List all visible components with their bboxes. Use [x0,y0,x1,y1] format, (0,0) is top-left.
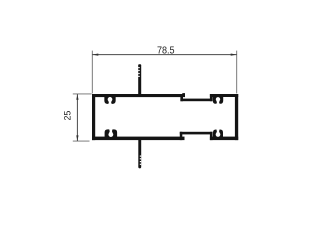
profile top recessed wall [180,99,212,102]
dimension 25 arrow top [76,94,78,100]
svg-text:78.5: 78.5 [157,45,175,56]
dimension 25 line [76,94,78,141]
screw boss bottom-right [213,128,223,137]
svg-text:25: 25 [62,111,73,121]
dimension 78.5 extension line left [91,51,93,94]
profile bottom step-down riser [210,132,213,140]
dimension 78.5 extension line right [236,51,238,94]
profile top wall left section [92,94,185,97]
dimension 78.5 line [92,54,236,56]
screw boss top-left [104,96,115,105]
top gasket fin [138,64,141,95]
dimension 25 extension line top [73,93,92,95]
profile bottom recessed wall [180,132,213,135]
profile top wall right section [210,94,238,97]
profile right wall [235,94,238,140]
profile bottom wall right section [210,137,238,141]
screw boss top-right [213,96,223,105]
profile top step-up riser [210,94,213,101]
dimension 25 extension line bottom [73,140,90,142]
bottom gasket fin [138,137,141,168]
profile left wall [92,94,95,140]
profile top wall end lip [182,93,185,95]
profile top step-down riser [180,94,183,101]
profile bottom step-up riser [180,132,183,140]
screw boss bottom-left [105,128,118,137]
dimension 25 arrow bottom [76,135,78,141]
dimension 78.5 arrow left [92,53,98,55]
dimension 78.5 arrow right [231,53,237,55]
profile bottom wall left section [92,137,185,141]
